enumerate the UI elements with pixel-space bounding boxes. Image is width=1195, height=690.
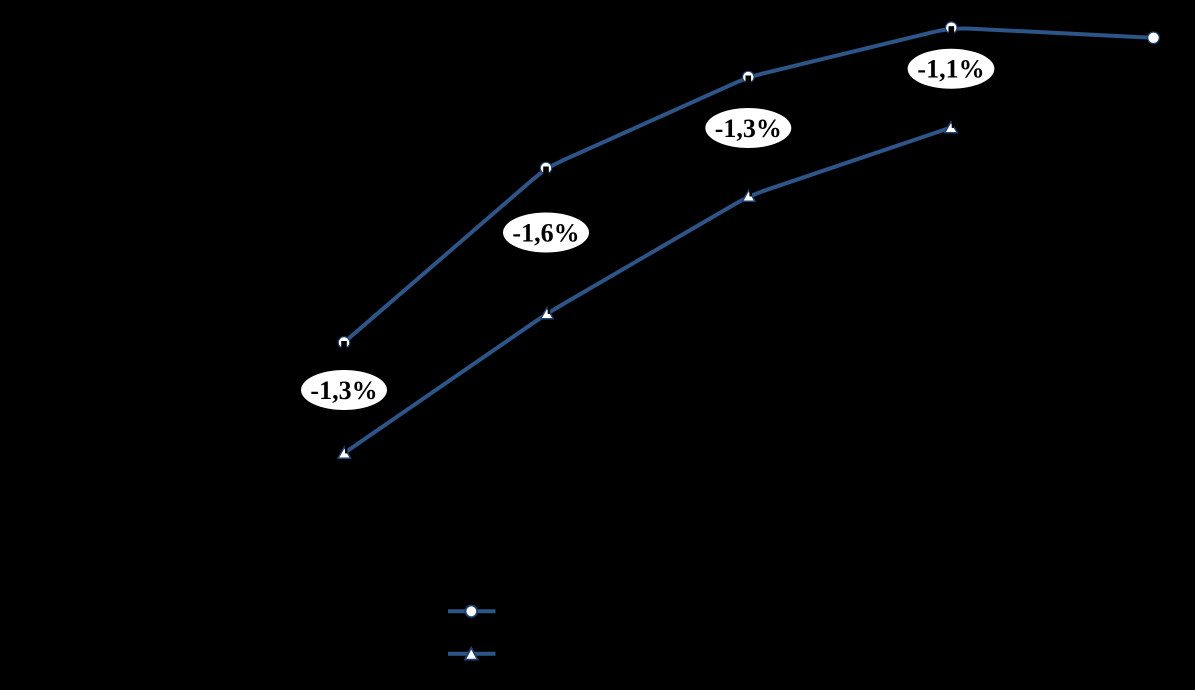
svg-text:-1,6%: -1,6% bbox=[512, 218, 579, 247]
svg-text:-1,3%: -1,3% bbox=[310, 376, 377, 405]
svg-text:-1,1%: -1,1% bbox=[917, 55, 984, 84]
svg-text:-1,3%: -1,3% bbox=[715, 114, 782, 143]
